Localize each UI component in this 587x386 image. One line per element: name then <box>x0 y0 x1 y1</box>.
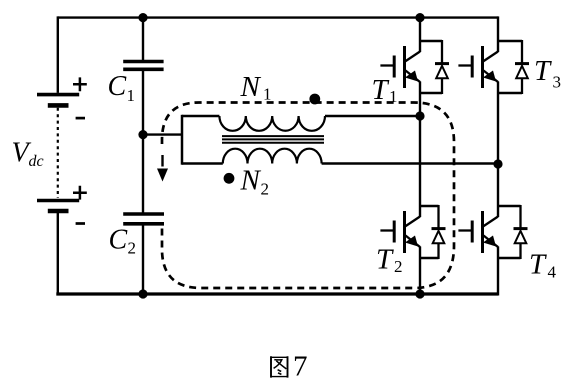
diode D1 triangle <box>436 66 448 78</box>
svg-text:T: T <box>534 55 552 87</box>
diode D2 cathode lead <box>437 205 439 229</box>
svg-text:2: 2 <box>394 257 403 276</box>
diode D4 cathode bar <box>514 227 528 230</box>
diode D1 anode lead <box>441 78 443 94</box>
wire bottom rail <box>56 292 498 295</box>
svg-text:3: 3 <box>553 73 562 92</box>
transistor T2 body bar <box>403 211 406 253</box>
transistor T1 emitter arrow <box>405 71 418 82</box>
battery cell 1 minus sign <box>76 117 85 120</box>
transistor T4 gate bar <box>471 221 474 243</box>
capacitor C2 bottom plate <box>123 222 164 226</box>
transistor T1 gate lead <box>380 64 394 66</box>
svg-text:2: 2 <box>261 180 270 199</box>
svg-text:T: T <box>529 249 547 281</box>
node top rail / T1 <box>415 13 424 22</box>
transistor T2 collector diagonal <box>405 217 420 227</box>
transistor T1 body bar <box>403 46 406 88</box>
wire C1 bottom lead to node A <box>142 71 144 136</box>
diode D2 anode lead <box>437 243 439 259</box>
wire N2 output lead to node C <box>322 162 498 164</box>
battery cell 2 long plate <box>37 199 79 203</box>
transistor T4 emitter diagonal <box>484 236 499 248</box>
node C T3 emitter / N2 <box>493 159 502 168</box>
diode D4 loop top wire <box>498 205 521 208</box>
transistor T2 emitter diagonal <box>406 236 421 248</box>
transistor T1 collector diagonal <box>405 52 420 62</box>
battery cell 1 plus sign <box>73 77 87 91</box>
diode D3 cathode lead <box>521 40 523 64</box>
svg-text:N: N <box>240 165 262 197</box>
battery cell 2 minus sign <box>76 222 85 225</box>
transistor T1 gate bar <box>393 56 396 78</box>
svg-text:2: 2 <box>128 239 137 258</box>
wire C2 top lead <box>142 133 144 214</box>
wire T1 collector from rail <box>419 18 421 52</box>
node B T1 emitter / N1 <box>415 111 424 120</box>
transistor T4 body bar <box>481 211 484 253</box>
svg-text:1: 1 <box>263 85 272 104</box>
wire N1 input lead <box>182 115 219 117</box>
battery cell 2 plus sign <box>73 186 87 200</box>
transistor T3 collector diagonal <box>483 52 498 62</box>
node bottom rail / C2 <box>138 289 147 298</box>
svg-text:T: T <box>376 244 394 276</box>
svg-text:7: 7 <box>293 350 308 382</box>
diode D2 cathode bar <box>432 227 446 230</box>
node bottom rail / T2 <box>415 289 424 298</box>
transistor T2 emitter arrow <box>405 236 418 247</box>
winding N2 polarity dot <box>224 173 235 184</box>
diode D1 loop bottom wire <box>420 92 442 95</box>
node A midpoint C1-C2 <box>138 130 147 139</box>
diode D1 cathode lead <box>441 40 443 64</box>
transformer left bar <box>181 115 184 165</box>
winding N2 <box>223 149 322 164</box>
wire N1 output lead to node B <box>325 115 420 117</box>
diode D4 loop bottom wire <box>498 257 521 260</box>
transistor T4 collector diagonal <box>483 217 498 227</box>
wire C1 top lead <box>142 18 144 60</box>
diode D3 loop bottom wire <box>498 92 522 95</box>
caption figure character tu <box>271 356 288 377</box>
diode D4 triangle <box>515 231 527 243</box>
transistor T3 emitter diagonal <box>484 71 499 83</box>
wire top rail <box>58 16 498 18</box>
svg-text:4: 4 <box>548 263 557 282</box>
dashed highlight loop <box>162 103 454 289</box>
wire battery top lead <box>57 16 59 93</box>
svg-text:dc: dc <box>29 153 44 170</box>
capacitor C1 bottom plate <box>123 68 163 72</box>
transistor T2 gate lead <box>380 229 394 231</box>
svg-text:N: N <box>240 71 262 103</box>
battery cell 2 short plate <box>48 209 69 214</box>
transistor T2 gate bar <box>393 221 396 243</box>
diode D2 loop top wire <box>420 205 439 208</box>
diode D1 cathode bar <box>435 62 449 65</box>
battery internal dotted link <box>57 108 59 198</box>
diode D3 cathode bar <box>515 62 529 65</box>
transistor T3 body bar <box>481 46 484 88</box>
svg-text:C: C <box>108 71 127 102</box>
winding N1 polarity dot <box>309 94 320 105</box>
wire T3 emitter to T4 collector <box>497 82 499 218</box>
transistor T4 emitter arrow <box>483 236 496 247</box>
wire T4 emitter to bottom rail corner <box>497 247 499 296</box>
wire C2 bottom lead <box>142 224 144 296</box>
wire T3 collector from rail corner <box>497 16 499 52</box>
transistor T3 emitter arrow <box>483 71 496 82</box>
diode D3 triangle <box>516 66 528 78</box>
svg-text:C: C <box>109 225 128 256</box>
wire T1 emitter to T2 collector <box>419 82 421 218</box>
diode D3 loop top wire <box>498 40 522 43</box>
battery cell 1 short plate <box>48 103 69 108</box>
transistor T1 emitter diagonal <box>406 71 421 83</box>
diode D4 anode lead <box>519 243 521 259</box>
wire battery bottom lead <box>57 213 59 296</box>
transistor T3 gate lead <box>458 64 472 66</box>
diode D1 loop top wire <box>420 40 442 43</box>
wire N2 input lead <box>182 162 223 164</box>
wire stub node A to transformer <box>143 133 182 135</box>
transistor T3 gate bar <box>471 56 474 78</box>
transformer core lines <box>222 136 324 143</box>
diode D2 triangle <box>433 231 445 243</box>
dashed loop current arrow <box>161 155 163 167</box>
capacitor C2 top plate <box>123 212 164 216</box>
diode D2 loop bottom wire <box>420 257 439 260</box>
transistor T4 gate lead <box>458 229 472 231</box>
diode D3 anode lead <box>521 78 523 94</box>
svg-text:1: 1 <box>127 86 136 105</box>
diode D4 cathode lead <box>519 205 521 229</box>
winding N1 <box>219 116 325 131</box>
battery cell 1 long plate <box>37 93 79 97</box>
node top rail / C1 <box>138 13 147 22</box>
wire T2 emitter to bottom rail <box>419 247 421 295</box>
capacitor C1 top plate <box>123 60 163 64</box>
